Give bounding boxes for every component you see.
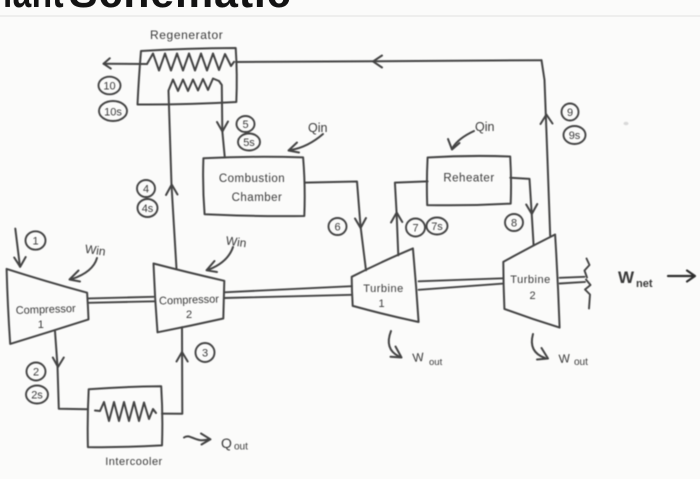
svg-text:out: out: [574, 357, 588, 368]
curved arrow Win into compressor 2: [207, 247, 234, 272]
svg-text:3: 3: [202, 348, 208, 360]
svg-text:Chamber: Chamber: [232, 192, 283, 204]
svg-text:7: 7: [412, 223, 418, 235]
label Qin (reheater): [475, 120, 495, 134]
svg-text:Win: Win: [225, 234, 247, 251]
svg-text:Combustion: Combustion: [219, 173, 285, 185]
combustion chamber box: [203, 157, 305, 216]
label Win (compressor 1): [84, 242, 106, 259]
svg-text:10: 10: [103, 81, 115, 93]
svg-text:9: 9: [567, 107, 573, 119]
label Regenerator: [150, 28, 223, 42]
wire: right vertical from turbine 2 up, with up arrowhead (state 9): [541, 60, 553, 236]
svg-text:Regenerator: Regenerator: [150, 28, 223, 42]
wire: regenerator exit line with left arrowhead (state 10): [104, 58, 148, 68]
label Turbine 1: [363, 283, 403, 310]
wire: state 2 from compressor 1 down to intercooler, down arrowhead: [53, 331, 88, 409]
svg-text:7s: 7s: [431, 221, 443, 233]
label Compressor 1: [16, 303, 77, 331]
wire: state 4 vertical from compressor 2 to regenerator, up arrowhead: [166, 91, 178, 269]
label Combustion Chamber: [219, 173, 285, 204]
curved arrow Qin into combustion chamber: [289, 134, 324, 153]
label W out (turbine 1): [412, 350, 443, 368]
svg-text:5: 5: [242, 119, 248, 131]
regenerator hot-side zigzag (top): [147, 54, 234, 71]
label Qout: [221, 435, 248, 453]
node 7: [406, 219, 425, 237]
shaft T1-T2 (double line): [419, 278, 504, 290]
paper fleck: [624, 122, 629, 126]
regenerator box: [138, 48, 237, 105]
svg-text:Compressor: Compressor: [159, 293, 220, 307]
node 6: [329, 218, 347, 235]
turbine T1: [352, 248, 419, 322]
intercooler zigzag: [95, 402, 156, 421]
node 7s: [427, 218, 448, 235]
shaft break marks: [585, 259, 591, 309]
label Win (compressor 2): [225, 234, 247, 251]
wire: state 6 from combustion chamber to turbine 1, down arrowhead: [305, 182, 367, 271]
reheater box: [427, 156, 511, 205]
svg-text:Compressor: Compressor: [16, 303, 77, 317]
wire: state 8 from reheater to turbine 2, down arrowhead: [510, 178, 537, 246]
svg-text:2: 2: [33, 367, 39, 379]
svg-text:Reheater: Reheater: [443, 173, 494, 185]
curved arrow Qin into reheater: [448, 131, 474, 150]
svg-text:Turbine: Turbine: [363, 283, 403, 295]
svg-text:1: 1: [378, 298, 384, 310]
svg-text:6: 6: [334, 222, 340, 234]
svg-text:Intercooler: Intercooler: [105, 456, 162, 468]
svg-text:net: net: [636, 278, 653, 290]
shaft C1-C2 (double line): [89, 297, 156, 303]
svg-text:Q: Q: [221, 435, 232, 451]
wire: state 5 from regenerator down to combustion chamber, down arrowhead: [217, 81, 228, 158]
svg-text:10s: 10s: [104, 107, 122, 119]
arrow Wnet output: [668, 271, 695, 282]
node 5: [237, 116, 255, 132]
node 2: [27, 363, 46, 381]
wire: state 3 from intercooler to compressor 2, up arrowhead: [162, 327, 188, 414]
intercooler box: [88, 386, 163, 447]
label Turbine 2: [510, 274, 550, 302]
node 1: [26, 231, 46, 249]
svg-text:2: 2: [186, 309, 192, 321]
curved arrow Wout (turbine 1): [389, 331, 402, 358]
svg-text:out: out: [234, 442, 248, 453]
label Reheater: [443, 173, 494, 185]
node 10: [99, 77, 121, 95]
faint horizontal rule under title: [0, 15, 700, 17]
svg-text:W: W: [618, 268, 635, 287]
node 10s: [99, 101, 127, 121]
svg-text:4s: 4s: [142, 203, 154, 215]
curved arrow Win into compressor 1: [70, 258, 98, 282]
svg-text:1: 1: [32, 236, 38, 248]
node 5s: [238, 134, 260, 151]
label Compressor 2: [159, 293, 220, 321]
svg-text:5s: 5s: [243, 137, 255, 149]
svg-text:Win: Win: [84, 242, 106, 259]
svg-text:8: 8: [511, 218, 517, 230]
node 2s: [26, 386, 48, 404]
label Intercooler: [105, 456, 162, 468]
label Wnet: [618, 268, 653, 290]
node 4: [137, 180, 155, 197]
curved arrow Wout (turbine 2): [532, 334, 548, 360]
wire: top return line from turbine 2 to regenerator with mid left arrowhead (state 9): [236, 56, 542, 68]
node 8: [505, 214, 523, 231]
svg-text:Qin: Qin: [475, 120, 495, 134]
svg-text:Turbine: Turbine: [510, 274, 550, 286]
svg-text:4: 4: [143, 184, 149, 196]
wire: state 1 inlet into compressor 1, down arrowhead: [14, 229, 26, 267]
svg-text:W: W: [558, 351, 571, 366]
curved arrow Qout from intercooler: [184, 434, 211, 445]
title "Plant Schematic" (cropped): [3, 0, 64, 18]
node 9s: [564, 126, 586, 144]
compressor C1: [7, 269, 89, 344]
shaft C2-T1 (double line): [224, 286, 352, 298]
node 3: [196, 343, 215, 362]
wire: state 7 from turbine 1 to reheater, up arrowhead: [391, 181, 428, 255]
svg-text:1: 1: [38, 319, 44, 331]
svg-text:Qin: Qin: [308, 121, 328, 135]
svg-text:9s: 9s: [569, 130, 581, 142]
label Qin (combustion chamber): [308, 121, 328, 135]
turbine T2: [503, 235, 559, 328]
svg-text:2: 2: [529, 290, 535, 302]
svg-text:2s: 2s: [31, 390, 43, 402]
node 4s: [138, 199, 158, 217]
shaft T2-output (double line): [560, 277, 585, 284]
regenerator cold-side zigzag (bottom): [169, 79, 220, 92]
svg-text:W: W: [412, 350, 425, 365]
label Wout (turbine 2): [558, 351, 588, 368]
svg-text:out: out: [429, 357, 443, 368]
node 9: [562, 104, 579, 121]
compressor C2: [154, 264, 225, 333]
